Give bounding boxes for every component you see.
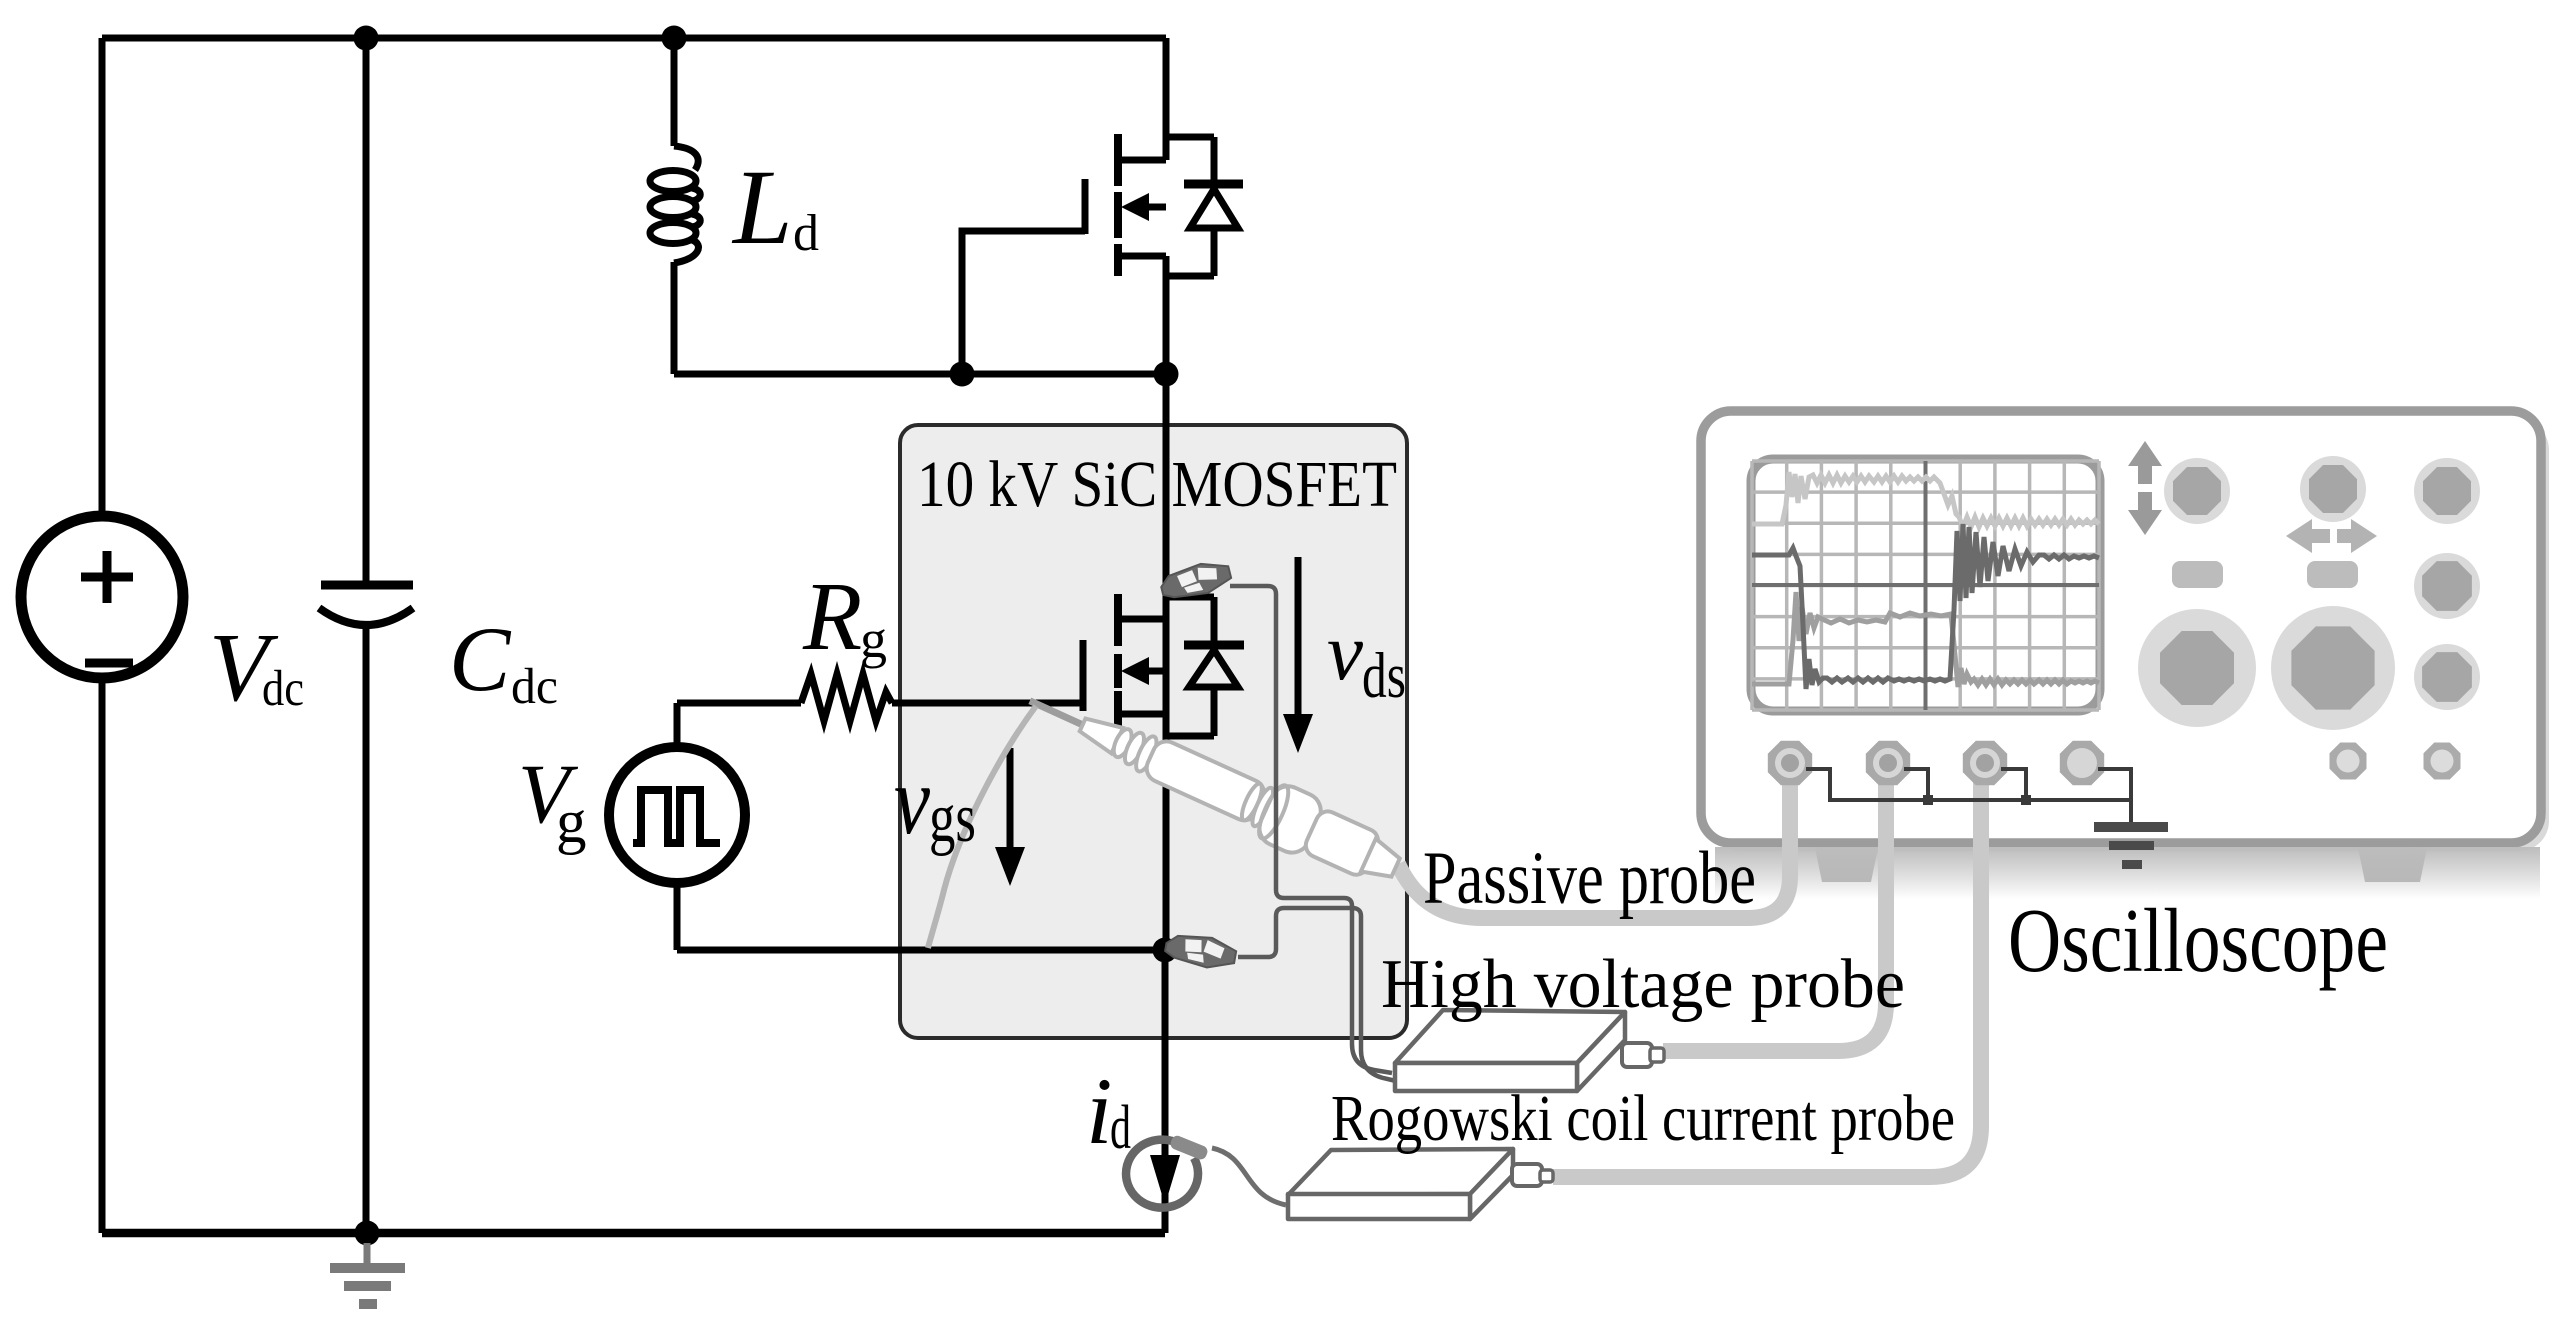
svg-text:gs: gs	[929, 780, 976, 857]
svg-text:R: R	[802, 563, 862, 670]
svg-text:Passive probe: Passive probe	[1423, 837, 1756, 920]
svg-text:v: v	[894, 747, 930, 855]
svg-text:ds: ds	[1362, 640, 1406, 712]
svg-text:C: C	[449, 608, 512, 710]
svg-text:dc: dc	[511, 659, 558, 715]
svg-text:d: d	[1110, 1094, 1131, 1162]
svg-text:g: g	[860, 609, 887, 669]
svg-text:L: L	[731, 149, 793, 267]
svg-text:High voltage probe: High voltage probe	[1381, 946, 1905, 1023]
svg-text:v: v	[1327, 606, 1364, 697]
svg-text:i: i	[1086, 1058, 1112, 1164]
svg-text:Oscilloscope: Oscilloscope	[2008, 890, 2388, 991]
svg-text:dc: dc	[262, 661, 304, 717]
svg-text:d: d	[793, 205, 819, 262]
svg-text:g: g	[556, 789, 587, 856]
svg-text:10 kV SiC MOSFET: 10 kV SiC MOSFET	[917, 448, 1397, 521]
svg-text:Rogowski coil current probe: Rogowski coil current probe	[1331, 1082, 1955, 1155]
